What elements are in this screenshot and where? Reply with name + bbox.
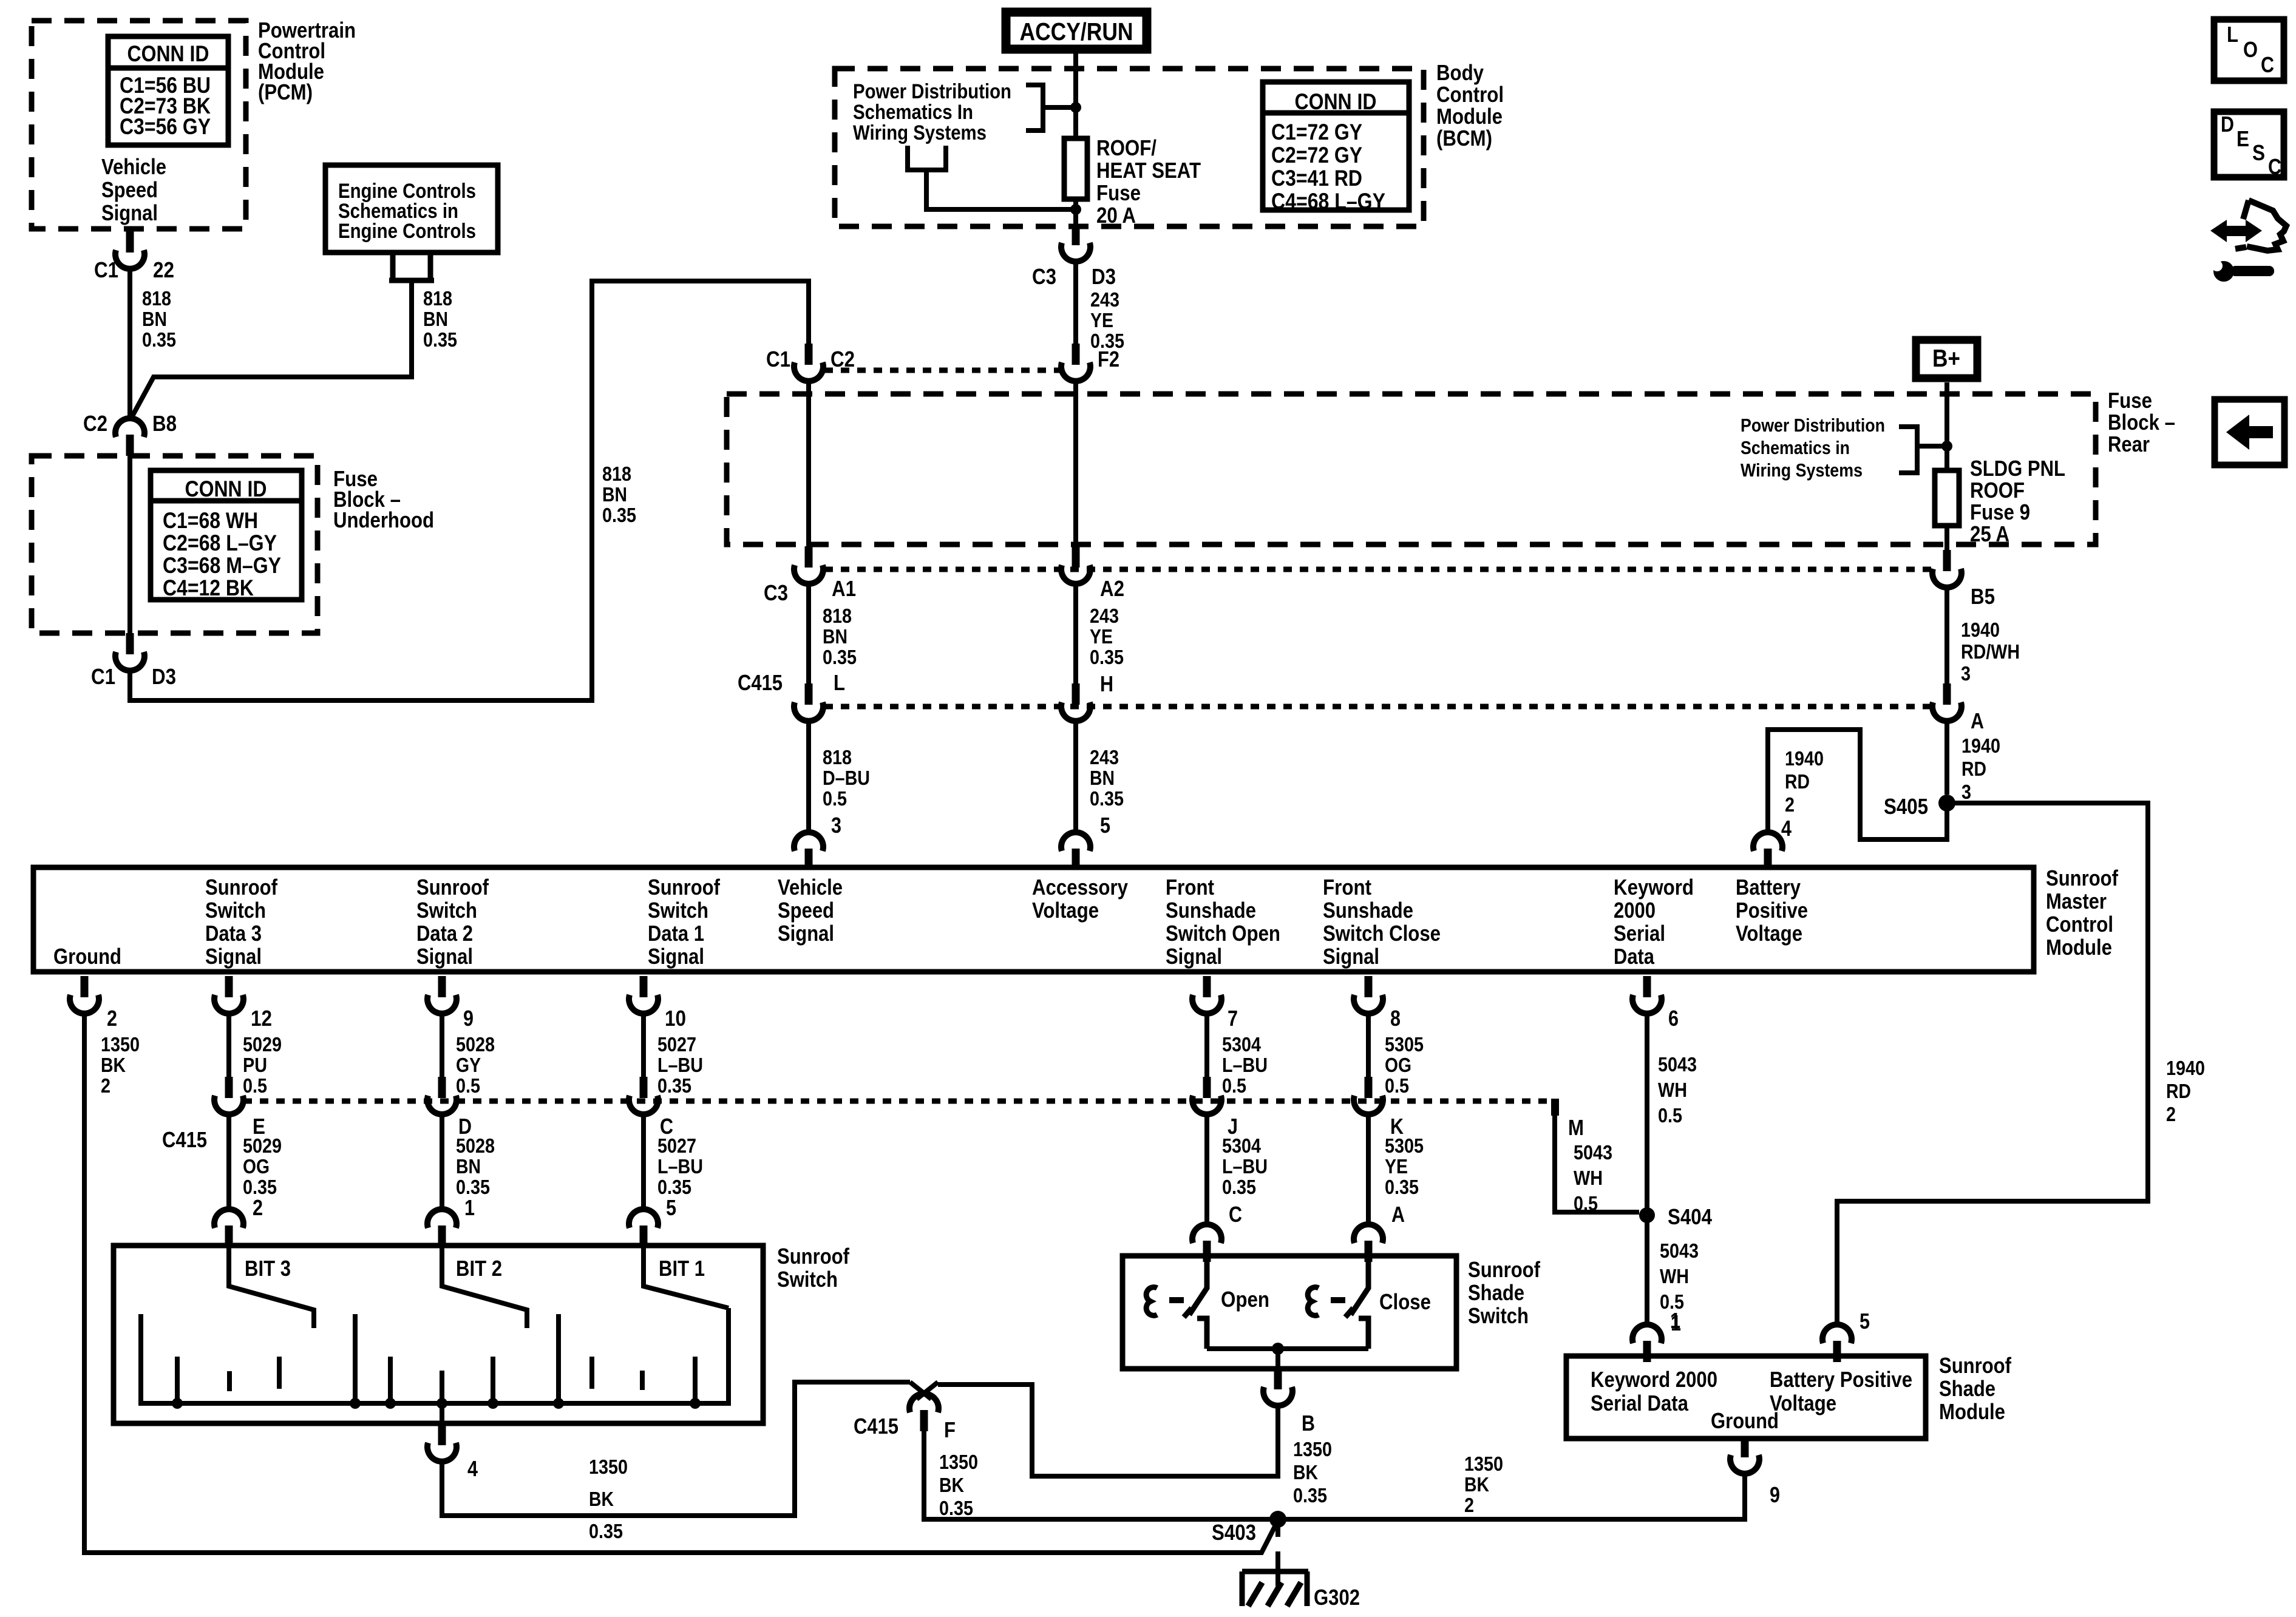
svg-text:Keyword: Keyword — [1614, 875, 1694, 900]
svg-text:Signal: Signal — [648, 944, 704, 969]
svg-text:Data 1: Data 1 — [648, 921, 704, 946]
svg-text:L–BU: L–BU — [1222, 1054, 1268, 1076]
svg-text:(BCM): (BCM) — [1436, 126, 1492, 151]
module pin 8 connector — [1354, 976, 1383, 1014]
wire 818 BN 0.35 from underhood D3 right and up to BCM C2 — [130, 281, 809, 700]
module pin 7 connector — [1192, 976, 1221, 1014]
in-line connector dotted line C2/F2 — [824, 368, 1061, 373]
open switch blade — [1189, 1260, 1207, 1315]
splice S405 — [1938, 795, 1955, 812]
close switch lower contact — [1359, 1318, 1368, 1349]
connector C415 pin H — [1061, 683, 1090, 721]
svg-text:Battery Positive: Battery Positive — [1770, 1367, 1912, 1392]
svg-text:0.35: 0.35 — [1222, 1176, 1256, 1198]
wire 5043 WH 0.5 from M to splice S404 — [1555, 1116, 1639, 1212]
svg-text:5: 5 — [1860, 1309, 1870, 1334]
svg-text:Fuse: Fuse — [2108, 388, 2152, 413]
svg-text:1350: 1350 — [939, 1451, 978, 1473]
svg-text:0.5: 0.5 — [1658, 1104, 1682, 1127]
fuse block underhood dashed outline — [32, 456, 318, 633]
svg-text:BK: BK — [589, 1488, 614, 1510]
svg-text:Serial Data: Serial Data — [1591, 1391, 1689, 1415]
shade module pin 1 connector — [1632, 1324, 1662, 1362]
wire 5304 L-BU 0.5 pin 7 to C415 J — [1204, 1012, 1209, 1079]
svg-text:WH: WH — [1574, 1167, 1603, 1189]
svg-text:BN: BN — [602, 483, 627, 506]
svg-text:A: A — [1971, 708, 1984, 733]
svg-text:0.35: 0.35 — [602, 504, 636, 526]
svg-text:Fuse: Fuse — [1096, 180, 1141, 205]
svg-text:RD/WH: RD/WH — [1961, 640, 2020, 663]
svg-text:0.5: 0.5 — [456, 1074, 480, 1097]
svg-text:C3=56 GY: C3=56 GY — [120, 114, 211, 139]
svg-text:Module: Module — [1939, 1399, 2005, 1424]
svg-text:CONN ID: CONN ID — [127, 41, 209, 66]
svg-text:C2: C2 — [830, 347, 855, 371]
svg-text:2000: 2000 — [1614, 898, 1656, 923]
svg-text:D–BU: D–BU — [823, 767, 870, 789]
floating contact tick 9 — [589, 1357, 594, 1389]
svg-text:Signal: Signal — [205, 944, 262, 969]
svg-text:Sunshade: Sunshade — [1166, 898, 1256, 923]
bracket from power distribution note to B+ wire — [1899, 427, 1942, 473]
off-page bracket below power distribution note — [908, 146, 1071, 209]
svg-text:243: 243 — [1090, 746, 1119, 768]
svg-text:ROOF: ROOF — [1970, 478, 2025, 503]
module pin 12 connector — [214, 976, 243, 1014]
PCM CONN ID table — [108, 36, 228, 145]
svg-text:818: 818 — [602, 463, 631, 485]
svg-text:5028: 5028 — [456, 1033, 495, 1056]
svg-text:9: 9 — [463, 1006, 474, 1031]
svg-text:5027: 5027 — [657, 1134, 696, 1157]
svg-text:4: 4 — [1781, 816, 1792, 841]
svg-text:YE: YE — [1090, 625, 1113, 648]
svg-text:BK: BK — [1293, 1461, 1318, 1483]
splice S404 — [1639, 1207, 1655, 1223]
wire from bus down through switch box to pin 4 — [440, 1403, 444, 1425]
svg-text:B: B — [1302, 1411, 1315, 1436]
svg-text:Data: Data — [1614, 944, 1655, 969]
svg-text:CONN ID: CONN ID — [1295, 89, 1377, 114]
svg-text:5304: 5304 — [1222, 1033, 1262, 1056]
module BCM dashed outline (Body Control Module) — [835, 69, 1424, 226]
svg-text:Battery: Battery — [1736, 875, 1801, 900]
svg-text:Block –: Block – — [2108, 410, 2175, 435]
svg-text:4: 4 — [467, 1456, 478, 1481]
in-line connector dotted line A1/A2/B5 — [824, 567, 1932, 572]
underhood CONN ID table — [151, 470, 302, 600]
contact tick with dot 7 — [491, 1357, 495, 1403]
svg-text:Switch: Switch — [648, 898, 708, 923]
svg-text:L–BU: L–BU — [657, 1155, 703, 1178]
contact tick with dot 5 — [388, 1357, 393, 1403]
wire 5027 L-BU 0.35 pin 10 to C415 C — [641, 1012, 646, 1078]
svg-text:YE: YE — [1385, 1155, 1408, 1178]
svg-text:0.35: 0.35 — [657, 1074, 691, 1097]
svg-text:Sunroof: Sunroof — [2046, 866, 2119, 890]
module pin 3 connector (vehicle speed signal) — [794, 832, 823, 870]
svg-text:3: 3 — [1961, 662, 1971, 685]
svg-text:Close: Close — [1379, 1289, 1431, 1314]
wire 5027 L-BU 0.35 C to sunroof switch — [641, 1113, 646, 1209]
svg-text:0.35: 0.35 — [1385, 1176, 1419, 1198]
svg-text:0.35: 0.35 — [939, 1497, 973, 1519]
wire B5 down to C415 A — [1944, 586, 1949, 683]
svg-text:Front: Front — [1323, 875, 1371, 900]
svg-text:818: 818 — [823, 605, 852, 627]
junction dot above ROOF/HEAT SEAT fuse — [1070, 102, 1081, 113]
svg-text:20 A: 20 A — [1096, 203, 1136, 228]
shade switch common junction dot — [1272, 1343, 1284, 1355]
switch box Sunroof Shade Switch — [1123, 1256, 1456, 1369]
svg-text:Speed: Speed — [101, 177, 158, 202]
connector C415 pin F crossover — [910, 1382, 938, 1399]
svg-text:C415: C415 — [738, 670, 783, 695]
svg-text:Serial: Serial — [1614, 921, 1665, 946]
module Sunroof Master Control Module — [33, 867, 2034, 972]
sunroof switch entry connector from C — [629, 1209, 658, 1247]
svg-text:C4=68 L–GY: C4=68 L–GY — [1271, 189, 1385, 214]
wire 5304 L-BU 0.35 J to shade switch C — [1204, 1113, 1209, 1225]
svg-text:Signal: Signal — [1323, 944, 1379, 969]
svg-text:ROOF/: ROOF/ — [1096, 135, 1156, 160]
wire 818 D-BU 0.5 from C415 L to module pin 3 — [806, 720, 811, 831]
svg-text:0.5: 0.5 — [243, 1074, 267, 1097]
module Sunroof Shade Module — [1566, 1356, 1926, 1439]
off-page connector below Engine Controls box — [389, 253, 434, 280]
svg-text:0.5: 0.5 — [1385, 1074, 1409, 1097]
svg-text:Module: Module — [2046, 935, 2112, 960]
svg-text:1940: 1940 — [1785, 747, 1824, 770]
svg-text:C1: C1 — [94, 257, 118, 282]
svg-text:L–BU: L–BU — [657, 1054, 703, 1076]
svg-text:C1=72 GY: C1=72 GY — [1271, 120, 1362, 144]
svg-text:Switch: Switch — [1468, 1303, 1529, 1328]
svg-text:Ground: Ground — [1711, 1408, 1779, 1433]
svg-text:C3=68 M–GY: C3=68 M–GY — [163, 553, 281, 578]
svg-text:10: 10 — [665, 1006, 686, 1031]
fuse SLDG PNL ROOF Fuse 9 25 A — [1935, 470, 1959, 526]
contact tick with dot 11 — [693, 1357, 698, 1403]
svg-text:SLDG PNL: SLDG PNL — [1970, 456, 2065, 481]
svg-text:22: 22 — [153, 257, 174, 282]
close switch blade — [1351, 1260, 1368, 1315]
svg-text:S: S — [2252, 140, 2265, 165]
svg-text:5027: 5027 — [657, 1033, 696, 1056]
svg-text:Control: Control — [1436, 82, 1504, 107]
svg-text:Ground: Ground — [53, 944, 121, 969]
power feed tag B+ — [1916, 340, 1977, 378]
svg-text:Signal: Signal — [1166, 944, 1222, 969]
connector C3 pin D3 of BCM — [1061, 224, 1090, 262]
svg-text:0.5: 0.5 — [1574, 1192, 1598, 1215]
contact tick with dot 8 (tall) — [556, 1314, 561, 1403]
icon double arrow with wrench (diagnostic) — [2221, 226, 2252, 236]
svg-text:Sunroof: Sunroof — [205, 875, 278, 900]
svg-text:WH: WH — [1658, 1079, 1687, 1101]
shade module pin 5 connector — [1822, 1324, 1852, 1362]
module pin 2 connector (ground) — [70, 976, 99, 1014]
svg-text:Sunroof: Sunroof — [1468, 1257, 1541, 1282]
svg-text:5: 5 — [1100, 813, 1110, 838]
svg-text:BN: BN — [1090, 767, 1115, 789]
splice S403 — [1269, 1511, 1286, 1528]
svg-text:A: A — [1391, 1202, 1405, 1227]
wire from ACCY/RUN into BCM — [1073, 53, 1078, 136]
svg-text:D3: D3 — [152, 664, 176, 689]
module PCM dashed outline (Powertrain Control Module) — [32, 21, 246, 229]
wire from fuse rear to B5 — [1944, 544, 1949, 552]
svg-text:C3: C3 — [764, 580, 788, 605]
svg-text:BIT 1: BIT 1 — [659, 1256, 705, 1281]
svg-text:0.35: 0.35 — [1090, 787, 1124, 810]
svg-text:Voltage: Voltage — [1736, 921, 1802, 946]
shade switch entry connector C — [1192, 1224, 1221, 1262]
svg-text:2: 2 — [1464, 1494, 1474, 1516]
svg-text:C1=68 WH: C1=68 WH — [163, 508, 258, 533]
svg-text:OG: OG — [1385, 1054, 1411, 1076]
svg-text:Sunroof: Sunroof — [416, 875, 489, 900]
connector B5 of fuse block rear — [1932, 550, 1961, 588]
svg-text:Sunroof: Sunroof — [648, 875, 721, 900]
svg-text:0.5: 0.5 — [823, 787, 847, 810]
svg-text:F: F — [944, 1417, 956, 1442]
svg-text:F2: F2 — [1098, 347, 1119, 371]
wire A down to splice S405 — [1944, 720, 1949, 795]
BIT 2 wiper blade — [442, 1247, 527, 1328]
svg-text:C415: C415 — [854, 1414, 898, 1439]
svg-text:Switch: Switch — [205, 898, 266, 923]
svg-text:243: 243 — [1090, 288, 1119, 311]
svg-text:5304: 5304 — [1222, 1134, 1262, 1157]
svg-text:C3=41 RD: C3=41 RD — [1271, 166, 1362, 191]
open switch lower contact — [1197, 1318, 1207, 1349]
svg-text:5028: 5028 — [456, 1134, 495, 1157]
shade switch common bus — [1207, 1346, 1368, 1351]
svg-text:5029: 5029 — [243, 1033, 282, 1056]
svg-text:G302: G302 — [1314, 1585, 1360, 1610]
svg-text:Switch: Switch — [777, 1267, 838, 1292]
open switch dashed link — [1169, 1297, 1184, 1303]
svg-text:Module: Module — [1436, 104, 1503, 129]
fuse block rear dashed outline — [727, 394, 2096, 544]
fuse ROOF/HEAT SEAT 20 A — [1073, 110, 1078, 138]
sunroof switch entry connector from D — [427, 1209, 457, 1247]
wire 818 BN 0.35 from PCM C1-22 down to C2 B8 — [127, 267, 132, 419]
wire through underhood fuse block — [127, 456, 132, 633]
svg-text:D3: D3 — [1092, 264, 1116, 289]
svg-text:5029: 5029 — [243, 1134, 282, 1157]
svg-text:Positive: Positive — [1736, 898, 1808, 923]
svg-text:GY: GY — [456, 1054, 481, 1076]
svg-text:Body: Body — [1436, 60, 1484, 85]
svg-text:BK: BK — [939, 1474, 964, 1496]
svg-text:BK: BK — [101, 1054, 126, 1076]
svg-text:S404: S404 — [1668, 1204, 1712, 1229]
svg-text:RD: RD — [1961, 758, 1986, 780]
svg-text:Sunshade: Sunshade — [1323, 898, 1413, 923]
wire C2 to A1 through fuse block rear — [806, 380, 811, 546]
svg-text:Vehicle: Vehicle — [778, 875, 843, 900]
svg-text:Rear: Rear — [2108, 432, 2150, 456]
svg-text:HEAT SEAT: HEAT SEAT — [1096, 158, 1201, 183]
svg-text:Shade: Shade — [1468, 1280, 1524, 1305]
svg-text:C2=72 GY: C2=72 GY — [1271, 143, 1362, 168]
ground symbol G302 — [1275, 1551, 1280, 1586]
connector C415 pin J — [1192, 1077, 1221, 1114]
svg-text:Signal: Signal — [416, 944, 473, 969]
svg-text:1350: 1350 — [589, 1456, 628, 1478]
svg-text:RD: RD — [1785, 770, 1810, 793]
svg-text:0.35: 0.35 — [823, 646, 857, 668]
svg-text:6: 6 — [1668, 1006, 1679, 1031]
svg-text:RD: RD — [2166, 1080, 2191, 1102]
wire 5305 OG 0.5 pin 8 to C415 K — [1366, 1012, 1371, 1079]
svg-text:A2: A2 — [1100, 576, 1124, 601]
svg-text:1350: 1350 — [101, 1033, 140, 1056]
power feed tag ACCY/RUN — [1006, 12, 1147, 49]
svg-text:B8: B8 — [152, 411, 177, 436]
switch box Sunroof Switch — [114, 1246, 763, 1423]
module pin 6 connector (keyword 2000 serial data) — [1632, 976, 1662, 1014]
svg-text:5305: 5305 — [1385, 1134, 1424, 1157]
wire 1940 RD 2 from S405 to module pin 4 (staircase) — [1768, 730, 1947, 839]
svg-text:5043: 5043 — [1574, 1141, 1612, 1164]
connector C1 pin 22 of PCM — [115, 231, 144, 269]
svg-text:WH: WH — [1660, 1265, 1689, 1287]
svg-text:Sunroof: Sunroof — [1939, 1353, 2012, 1378]
svg-text:C415: C415 — [162, 1127, 207, 1152]
wire 5028 GY 0.5 pin 9 to C415 D — [440, 1012, 444, 1078]
svg-text:BN: BN — [456, 1155, 481, 1178]
svg-text:Signal: Signal — [778, 921, 834, 946]
svg-text:YE: YE — [1090, 309, 1113, 331]
svg-text:BN: BN — [142, 308, 167, 330]
bracket from power distribution note to wire (upper) — [1026, 85, 1071, 131]
svg-text:Voltage: Voltage — [1770, 1391, 1836, 1415]
open switch momentary curl — [1146, 1287, 1157, 1316]
svg-text:L: L — [2227, 22, 2238, 47]
svg-text:Shade: Shade — [1939, 1376, 1995, 1401]
svg-text:0.5: 0.5 — [1222, 1074, 1246, 1097]
box Engine Controls Schematics in Engine Controls — [325, 165, 498, 253]
svg-text:C1: C1 — [766, 347, 790, 371]
module pin 4 connector (battery positive voltage) — [1753, 832, 1782, 870]
svg-text:2: 2 — [107, 1006, 117, 1031]
svg-text:C: C — [2268, 154, 2281, 179]
svg-text:818: 818 — [142, 287, 171, 310]
svg-text:1940: 1940 — [1961, 734, 2000, 757]
svg-text:0.35: 0.35 — [1090, 646, 1124, 668]
in-line connector dotted line C415 L/H/A — [824, 704, 1932, 710]
connector C415 pin C — [629, 1077, 658, 1114]
close switch contact tick — [1345, 1308, 1353, 1317]
wire 1350 BK 0.35 from C415 F down to S403 run — [924, 1430, 1745, 1519]
svg-text:Wiring Systems: Wiring Systems — [1741, 459, 1863, 481]
shade switch pin B connector — [1263, 1368, 1292, 1406]
svg-text:H: H — [1100, 671, 1113, 696]
svg-text:Signal: Signal — [101, 200, 158, 225]
svg-text:1940: 1940 — [1961, 619, 2000, 641]
svg-text:Switch Open: Switch Open — [1166, 921, 1280, 946]
connector C415 pin E — [214, 1077, 243, 1114]
connector C1 pin D3 of Fuse Block Underhood — [115, 633, 144, 671]
svg-text:0.35: 0.35 — [423, 328, 457, 351]
wire A2 to C415 H — [1073, 583, 1078, 683]
module pin 5 connector (accessory voltage) — [1061, 832, 1090, 870]
svg-text:Keyword 2000: Keyword 2000 — [1591, 1367, 1717, 1392]
wire 243 YE 0.35 from BCM D3 down to F2 — [1073, 260, 1078, 344]
svg-text:B5: B5 — [1971, 584, 1995, 609]
wire from B+ into fuse block rear — [1944, 382, 1949, 470]
close switch momentary curl — [1308, 1287, 1319, 1316]
svg-text:Schematics in: Schematics in — [1741, 437, 1850, 458]
connector A2 — [1061, 546, 1090, 584]
svg-text:Accessory: Accessory — [1032, 875, 1128, 900]
floating contact tick 2 — [227, 1371, 232, 1391]
svg-text:243: 243 — [1090, 605, 1119, 627]
wire from common junction to pin B — [1275, 1349, 1280, 1367]
connector C415 pin D — [427, 1077, 457, 1114]
sunroof switch pin 4 connector — [427, 1424, 457, 1462]
icon box DESC — [2214, 112, 2284, 177]
module pin 9 connector — [427, 976, 457, 1014]
wire 5305 YE 0.35 K to shade switch A — [1366, 1113, 1371, 1225]
svg-text:Switch Close: Switch Close — [1323, 921, 1441, 946]
svg-text:2: 2 — [253, 1195, 263, 1220]
wire 818 BN 0.35 from Engine Controls down-left to junction B8 — [131, 283, 412, 419]
wire 243 BN 0.35 from C415 H to module pin 5 — [1073, 720, 1078, 831]
svg-text:9: 9 — [1770, 1482, 1780, 1507]
svg-text:5305: 5305 — [1385, 1033, 1424, 1056]
svg-text:Power Distribution: Power Distribution — [853, 80, 1011, 103]
svg-text:C2=68 L–GY: C2=68 L–GY — [163, 531, 277, 555]
svg-text:Wiring Systems: Wiring Systems — [853, 121, 987, 144]
BCM CONN ID table — [1263, 82, 1409, 210]
wire A1 to C415 L — [806, 583, 811, 683]
svg-text:Fuse 9: Fuse 9 — [1970, 500, 2030, 524]
svg-text:2: 2 — [1785, 793, 1795, 816]
svg-text:1: 1 — [464, 1195, 475, 1220]
svg-text:Schematics In: Schematics In — [853, 101, 973, 124]
wire stub from S403 to ground G302 — [1275, 1519, 1280, 1537]
svg-text:C4=12 BK: C4=12 BK — [163, 575, 254, 600]
BIT 1 wiper blade to common leg — [644, 1247, 729, 1308]
svg-text:0.35: 0.35 — [589, 1520, 623, 1542]
connector C1/C2 on vehicle speed signal wire — [794, 344, 823, 381]
in-line connector C415 dotted line E/D/C/J/K/M — [243, 1099, 1555, 1104]
junction dot below ROOF/HEAT SEAT fuse — [1070, 204, 1081, 215]
wire F2 to A2 through fuse block rear — [1073, 380, 1078, 546]
svg-text:Underhood: Underhood — [333, 507, 434, 532]
icon box back arrow — [2215, 399, 2284, 465]
svg-text:ACCY/RUN: ACCY/RUN — [1020, 18, 1133, 46]
shade module pin 9 connector — [1730, 1436, 1759, 1474]
svg-text:Data 3: Data 3 — [205, 921, 262, 946]
wire 5043 WH 0.5 pin 6 down to splice S404 — [1645, 1012, 1649, 1323]
connector C415 pin L — [794, 683, 823, 721]
svg-text:7: 7 — [1228, 1006, 1238, 1031]
svg-text:C: C — [1229, 1202, 1242, 1227]
open switch contact tick — [1184, 1308, 1192, 1317]
svg-text:E: E — [2237, 126, 2249, 151]
svg-text:BN: BN — [423, 308, 448, 330]
svg-text:Data 2: Data 2 — [416, 921, 473, 946]
svg-text:(PCM): (PCM) — [258, 80, 313, 104]
sunroof switch entry connector from E — [214, 1209, 243, 1247]
contact tick with dot 1 — [175, 1357, 180, 1403]
